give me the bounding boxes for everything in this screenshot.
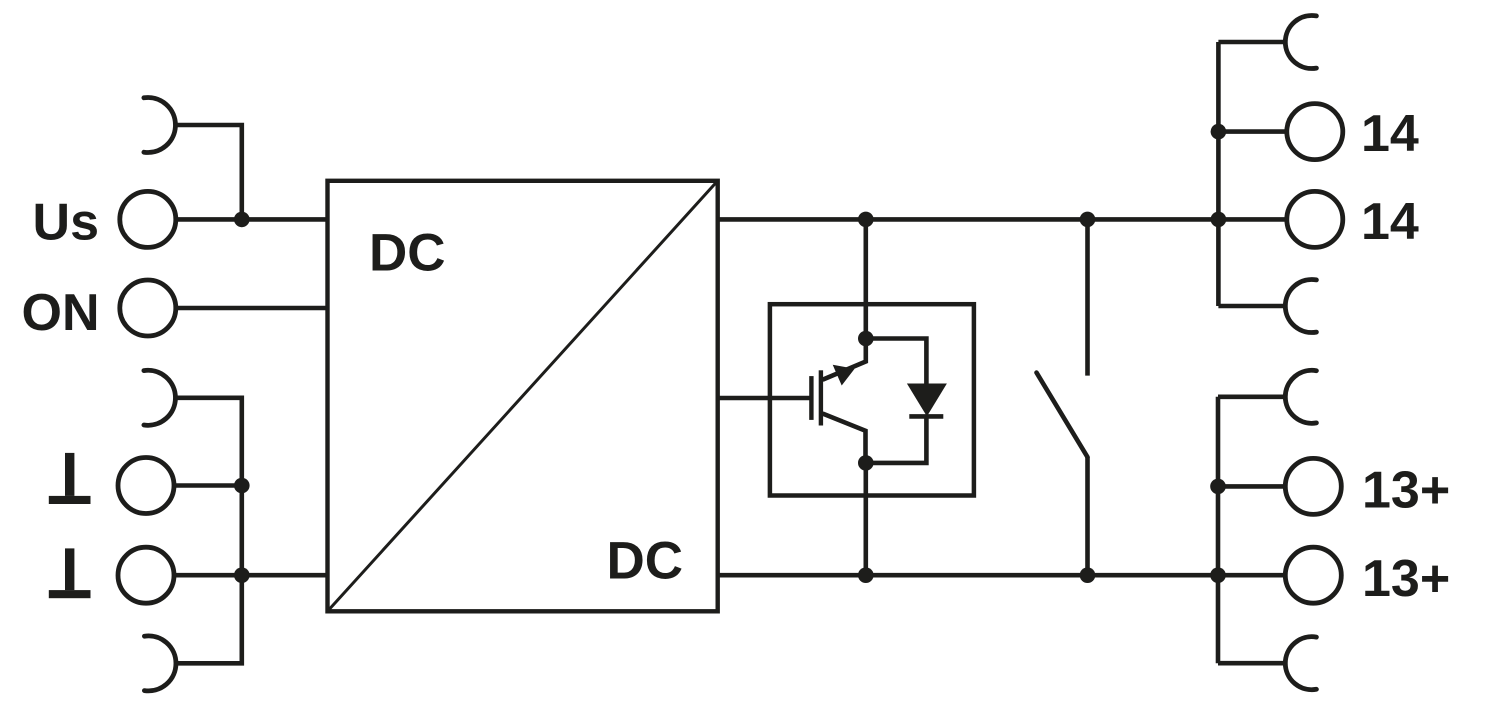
svg-text:13+: 13+ (1362, 550, 1450, 608)
svg-text:DC: DC (369, 224, 446, 283)
svg-text:ON: ON (22, 284, 100, 342)
svg-text:DC: DC (606, 532, 683, 591)
svg-text:14: 14 (1361, 193, 1419, 251)
svg-text:Us: Us (33, 194, 99, 252)
svg-text:14: 14 (1361, 105, 1419, 163)
svg-text:13+: 13+ (1362, 462, 1450, 520)
